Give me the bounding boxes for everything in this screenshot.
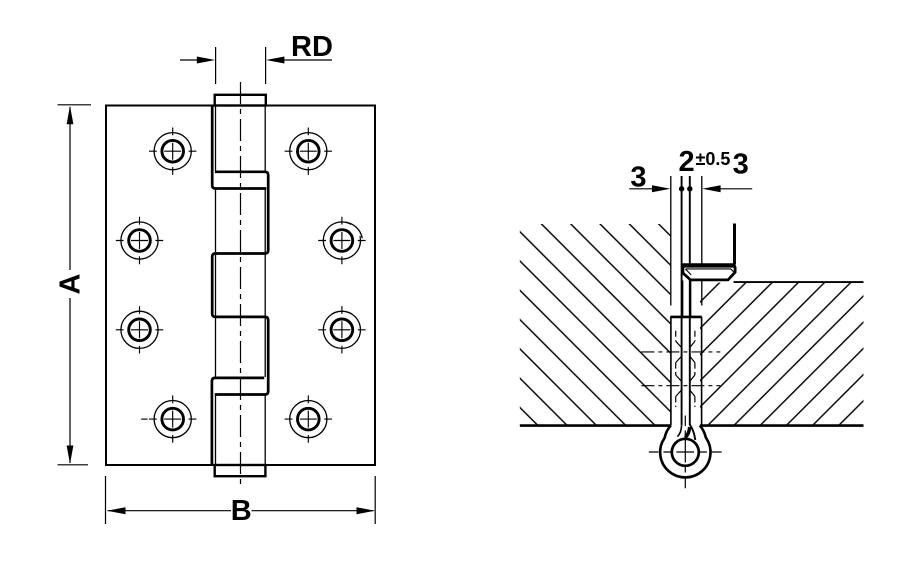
- svg-text:3: 3: [733, 149, 749, 181]
- svg-text:3: 3: [630, 162, 646, 194]
- svg-text:2: 2: [679, 146, 695, 178]
- svg-text:RD: RD: [291, 31, 333, 63]
- svg-text:±0.5: ±0.5: [696, 149, 731, 169]
- svg-text:A: A: [54, 273, 86, 294]
- svg-text:B: B: [231, 495, 252, 527]
